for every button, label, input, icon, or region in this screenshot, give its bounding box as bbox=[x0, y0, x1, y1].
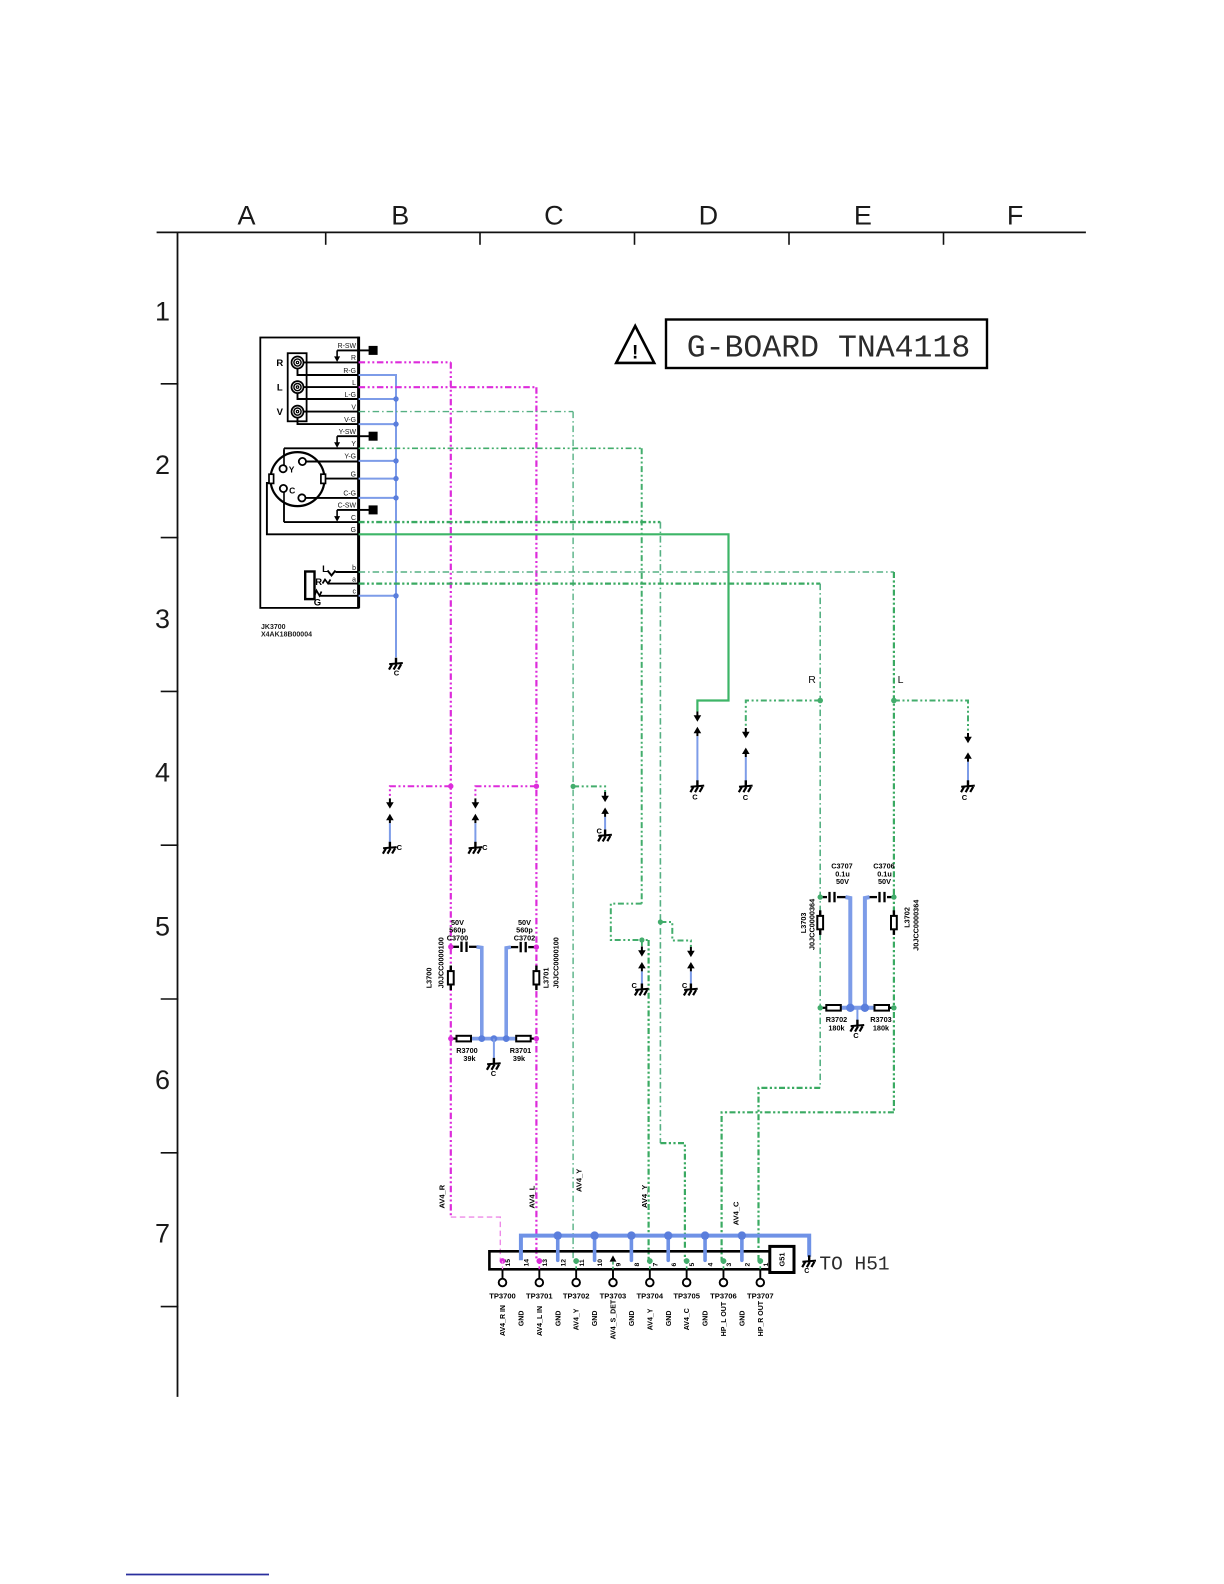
wire bbox=[696, 736, 698, 781]
svg-text:C: C bbox=[397, 843, 403, 852]
svg-text:TP3702: TP3702 bbox=[563, 1291, 590, 1300]
svg-text:50V: 50V bbox=[836, 877, 849, 886]
svg-text:L: L bbox=[277, 383, 283, 394]
svg-text:C: C bbox=[962, 793, 968, 802]
svg-text:X4AK18B00004: X4AK18B00004 bbox=[261, 632, 312, 639]
connector arrows bbox=[742, 728, 750, 738]
wire bbox=[666, 1236, 670, 1261]
junction pin7 bbox=[647, 1258, 653, 1264]
svg-text:c: c bbox=[353, 589, 357, 596]
svg-text:TP3706: TP3706 bbox=[710, 1291, 737, 1300]
svg-text:L3702: L3702 bbox=[903, 907, 912, 928]
junction bbox=[846, 1004, 854, 1012]
headphone jack body bbox=[305, 572, 314, 600]
resistor R3702 bbox=[820, 1007, 826, 1009]
S-video DIN connector body bbox=[284, 447, 359, 449]
DIN pin Y (top left) bbox=[283, 450, 285, 465]
junction bbox=[554, 1231, 562, 1239]
svg-text:5: 5 bbox=[689, 1263, 696, 1267]
svg-text:12: 12 bbox=[560, 1259, 567, 1267]
svg-text:HP_R OUT: HP_R OUT bbox=[758, 1300, 765, 1336]
test point TP3700 bbox=[502, 1269, 504, 1278]
svg-text:7: 7 bbox=[155, 1219, 170, 1249]
svg-text:R: R bbox=[351, 355, 356, 362]
wire pin15 stub bbox=[502, 1261, 504, 1269]
wire C-G bbox=[359, 497, 396, 499]
svg-text:Y: Y bbox=[289, 465, 295, 475]
test point TP3703 bbox=[612, 1269, 614, 1278]
svg-text:AV4_Y: AV4_Y bbox=[574, 1308, 581, 1330]
junction pin13 bbox=[536, 1258, 542, 1264]
link underline bbox=[126, 1574, 269, 1576]
connector JK3700 outer box bbox=[260, 338, 358, 608]
wire bbox=[506, 947, 511, 1039]
resistor R3701 bbox=[531, 1037, 537, 1039]
svg-text:50V: 50V bbox=[878, 877, 891, 886]
R-SW stub and terminal bbox=[337, 349, 359, 351]
ground bbox=[690, 780, 704, 792]
svg-text:AV4_Y: AV4_Y bbox=[640, 1185, 649, 1208]
wire G (DIN shield) bbox=[359, 478, 396, 480]
wire bbox=[474, 823, 476, 842]
svg-text:J0JCC0000100: J0JCC0000100 bbox=[552, 937, 561, 988]
svg-text:1: 1 bbox=[155, 297, 170, 327]
svg-text:AV4_R IN: AV4_R IN bbox=[500, 1305, 507, 1336]
RCA jack V bbox=[292, 406, 304, 418]
junction bbox=[701, 1231, 709, 1239]
svg-text:C3700: C3700 bbox=[447, 933, 469, 942]
ground bbox=[383, 842, 397, 854]
svg-text:R-G: R-G bbox=[343, 368, 356, 375]
svg-text:GND: GND bbox=[703, 1311, 710, 1327]
svg-text:Y: Y bbox=[351, 441, 356, 448]
junction bbox=[448, 944, 453, 949]
junction bbox=[818, 1005, 823, 1010]
junction bbox=[393, 593, 398, 598]
svg-text:GND: GND bbox=[629, 1311, 636, 1327]
svg-text:V: V bbox=[351, 404, 356, 411]
svg-text:R-SW: R-SW bbox=[338, 343, 357, 350]
svg-text:AV4_L: AV4_L bbox=[527, 1185, 536, 1208]
pin name labels bbox=[338, 343, 357, 595]
svg-text:Y-SW: Y-SW bbox=[339, 429, 357, 436]
junction bbox=[448, 784, 453, 789]
ground bbox=[598, 830, 612, 842]
svg-text:V: V bbox=[277, 407, 284, 418]
svg-text:AV4_Y: AV4_Y bbox=[647, 1308, 654, 1330]
svg-text:13: 13 bbox=[542, 1259, 549, 1267]
junction bbox=[891, 894, 896, 899]
junction bbox=[393, 396, 398, 401]
wire bbox=[556, 1236, 560, 1261]
svg-text:J0JCC0000364: J0JCC0000364 bbox=[808, 898, 817, 950]
test point TP3701 bbox=[538, 1269, 540, 1278]
connector G51 body bbox=[489, 1251, 769, 1269]
wire bbox=[690, 971, 692, 984]
svg-text:3: 3 bbox=[726, 1263, 733, 1267]
RCA signal wires bbox=[304, 361, 359, 363]
wire pin11 stub bbox=[575, 1261, 577, 1269]
wire bbox=[630, 1236, 634, 1261]
connector arrows bbox=[687, 947, 695, 957]
svg-text:HP_L OUT: HP_L OUT bbox=[721, 1301, 728, 1336]
junction bbox=[534, 784, 539, 789]
wire bbox=[471, 1037, 516, 1041]
wire bbox=[967, 762, 969, 781]
junction pin15 bbox=[500, 1258, 506, 1264]
junction bbox=[639, 937, 644, 942]
junction bbox=[658, 919, 663, 924]
svg-text:A: A bbox=[237, 201, 255, 231]
svg-text:L3700: L3700 bbox=[425, 968, 434, 989]
svg-text:C-G: C-G bbox=[343, 491, 356, 498]
svg-text:9: 9 bbox=[616, 1263, 623, 1267]
junction bbox=[393, 421, 398, 426]
wire branch to gnd bbox=[641, 940, 643, 946]
svg-text:AV4_L IN: AV4_L IN bbox=[537, 1306, 544, 1336]
junction bbox=[534, 944, 539, 949]
svg-text:C-SW: C-SW bbox=[338, 503, 357, 510]
DIN shield key left / G wire bbox=[267, 483, 359, 534]
svg-text:GND: GND bbox=[666, 1311, 673, 1327]
wire c (headphone gnd) bbox=[359, 595, 396, 597]
svg-text:C: C bbox=[491, 1069, 497, 1078]
svg-text:F: F bbox=[1007, 201, 1024, 231]
wire bbox=[856, 1008, 858, 1021]
svg-text:L-G: L-G bbox=[345, 392, 357, 399]
svg-text:C: C bbox=[394, 669, 400, 678]
wire AV4_R to pin15 bbox=[451, 1217, 501, 1261]
svg-text:TP3700: TP3700 bbox=[489, 1291, 516, 1300]
svg-text:G-BOARD TNA4118: G-BOARD TNA4118 bbox=[687, 332, 971, 367]
ground bbox=[802, 1255, 816, 1267]
svg-text:!: ! bbox=[632, 343, 638, 364]
junction bbox=[817, 698, 823, 704]
border frame bbox=[158, 232, 1086, 1396]
junction pin11 bbox=[573, 1258, 579, 1264]
wire bbox=[493, 1039, 495, 1059]
svg-text:GND: GND bbox=[519, 1311, 526, 1327]
svg-text:C: C bbox=[692, 793, 698, 802]
junction pin1 bbox=[757, 1258, 763, 1264]
DIN pin C (bottom left) bbox=[283, 492, 285, 522]
svg-text:L: L bbox=[898, 674, 904, 686]
capacitor C3702 bbox=[528, 946, 536, 948]
wire bbox=[745, 757, 747, 781]
junction bbox=[393, 476, 398, 481]
svg-text:G51: G51 bbox=[778, 1253, 787, 1267]
junction bbox=[448, 1036, 453, 1041]
wire bbox=[593, 1236, 597, 1261]
wire L-G bbox=[359, 398, 396, 400]
test point TP3705 bbox=[686, 1269, 688, 1278]
wire branch to gnd bbox=[660, 922, 691, 947]
RCA ground wires bbox=[298, 368, 359, 375]
ground bbox=[487, 1058, 501, 1070]
ground bbox=[635, 984, 649, 996]
svg-text:C: C bbox=[289, 486, 295, 496]
svg-text:2: 2 bbox=[155, 450, 170, 480]
wire bbox=[841, 1006, 875, 1010]
svg-text:AV4_C: AV4_C bbox=[684, 1308, 691, 1330]
svg-text:2: 2 bbox=[744, 1263, 751, 1267]
svg-text:L: L bbox=[352, 380, 356, 387]
svg-text:TP3701: TP3701 bbox=[526, 1291, 553, 1300]
warning triangle bbox=[616, 326, 654, 363]
wire branch to gnd bbox=[894, 701, 968, 734]
svg-text:GND: GND bbox=[739, 1311, 746, 1327]
wire AV4_R (R audio) bbox=[359, 361, 451, 363]
wire AV4_Y (V video) bbox=[359, 411, 573, 413]
svg-text:7: 7 bbox=[652, 1263, 659, 1267]
wire bbox=[389, 823, 391, 842]
RCA jack block bbox=[288, 353, 307, 421]
svg-text:180k: 180k bbox=[873, 1023, 890, 1032]
svg-text:a: a bbox=[352, 576, 356, 583]
svg-text:TP3705: TP3705 bbox=[673, 1291, 700, 1300]
wire branch to gnd bbox=[475, 786, 536, 798]
svg-text:D: D bbox=[699, 201, 719, 231]
capacitor C3707 bbox=[820, 896, 827, 898]
svg-text:5: 5 bbox=[155, 911, 170, 941]
svg-text:GND: GND bbox=[592, 1311, 599, 1327]
junction bbox=[664, 1231, 672, 1239]
wire bbox=[865, 897, 870, 1008]
svg-text:C: C bbox=[804, 1268, 809, 1275]
wire HP_L OUT bbox=[359, 571, 894, 573]
svg-text:R: R bbox=[808, 674, 816, 686]
test point TP3702 bbox=[575, 1269, 577, 1278]
svg-text:AV4_Y: AV4_Y bbox=[575, 1169, 584, 1192]
junction bbox=[861, 1004, 869, 1012]
svg-text:L: L bbox=[322, 564, 328, 575]
wire pin1 stub bbox=[759, 1261, 761, 1269]
junction bbox=[571, 784, 576, 789]
wire branch to gnd bbox=[573, 786, 605, 792]
svg-text:C: C bbox=[631, 981, 637, 990]
svg-text:GND: GND bbox=[555, 1311, 562, 1327]
svg-text:AV4_R: AV4_R bbox=[438, 1184, 447, 1208]
wire bbox=[740, 1236, 744, 1261]
junction bbox=[891, 698, 897, 704]
connector arrows bbox=[638, 946, 646, 956]
inductor L3701 bbox=[535, 966, 537, 972]
wire branch to gnd bbox=[746, 701, 820, 729]
junction bbox=[891, 1005, 896, 1010]
wire bbox=[477, 947, 482, 1039]
svg-text:C: C bbox=[351, 515, 356, 522]
svg-text:E: E bbox=[854, 201, 872, 231]
ground bbox=[389, 658, 403, 670]
ground bbox=[684, 984, 698, 996]
wire AV4_L (L audio) bbox=[359, 386, 537, 388]
junction bbox=[503, 1035, 510, 1042]
svg-text:180k: 180k bbox=[828, 1023, 845, 1032]
svg-text:3: 3 bbox=[155, 604, 170, 634]
svg-text:C: C bbox=[682, 981, 688, 990]
RCA jack R bbox=[292, 357, 304, 369]
test point TP3707 bbox=[759, 1269, 761, 1278]
junction bbox=[738, 1231, 746, 1239]
junction bbox=[393, 495, 398, 500]
capacitor C3700 bbox=[451, 946, 459, 948]
ground bbox=[468, 842, 482, 854]
svg-text:C: C bbox=[482, 843, 488, 852]
DIN pin C-G (bottom right) bbox=[302, 497, 359, 499]
test point TP3706 bbox=[722, 1269, 724, 1278]
headphone G contact (c) bbox=[315, 591, 322, 596]
junction bbox=[491, 1035, 498, 1042]
resistor R3700 bbox=[451, 1037, 457, 1039]
inductor L3700 bbox=[450, 966, 452, 972]
wire G (svideo shield) bbox=[359, 534, 729, 711]
junction bbox=[590, 1231, 598, 1239]
svg-text:AV4_S_DET: AV4_S_DET bbox=[611, 1299, 618, 1339]
wire branch to gnd bbox=[390, 786, 451, 798]
svg-text:C: C bbox=[544, 201, 564, 231]
svg-text:TP3704: TP3704 bbox=[637, 1291, 664, 1300]
wire pin3 stub bbox=[722, 1261, 724, 1269]
svg-text:TO H51: TO H51 bbox=[819, 1254, 889, 1276]
svg-text:TP3707: TP3707 bbox=[747, 1291, 774, 1300]
svg-text:39k: 39k bbox=[463, 1054, 476, 1063]
svg-text:C: C bbox=[853, 1031, 859, 1040]
wire bbox=[703, 1236, 707, 1261]
connector G51 box bbox=[770, 1246, 794, 1272]
svg-text:14: 14 bbox=[524, 1259, 531, 1267]
junction bbox=[393, 458, 398, 463]
pin9 arrow (AV4_S_DET) bbox=[610, 1255, 617, 1261]
title box G-BOARD TNA4118 bbox=[666, 320, 987, 369]
svg-text:AV4_C: AV4_C bbox=[731, 1201, 740, 1225]
svg-text:V-G: V-G bbox=[344, 417, 356, 424]
svg-text:TP3703: TP3703 bbox=[600, 1291, 627, 1300]
svg-text:B: B bbox=[391, 201, 409, 231]
svg-text:R: R bbox=[315, 577, 322, 588]
svg-text:R: R bbox=[276, 358, 283, 369]
svg-text:G: G bbox=[351, 527, 356, 534]
svg-text:Y-G: Y-G bbox=[344, 454, 356, 461]
connector arrows bbox=[386, 798, 394, 808]
junction bbox=[478, 1035, 485, 1042]
junction pin3 bbox=[721, 1258, 727, 1264]
wire bbox=[846, 897, 851, 1008]
DIN shield key right / G wire bbox=[324, 478, 359, 480]
wire blue ground bus bbox=[359, 375, 396, 657]
svg-text:JK3700: JK3700 bbox=[261, 624, 286, 631]
wire Y-G bbox=[359, 460, 396, 462]
connector arrows bbox=[694, 712, 702, 722]
svg-text:G: G bbox=[314, 598, 321, 609]
wire bbox=[641, 971, 643, 984]
svg-text:6: 6 bbox=[671, 1263, 678, 1267]
svg-text:L3701: L3701 bbox=[542, 968, 551, 989]
svg-text:C: C bbox=[743, 793, 749, 802]
capacitor C3706 bbox=[887, 896, 894, 898]
svg-text:4: 4 bbox=[155, 758, 170, 788]
svg-text:39k: 39k bbox=[513, 1054, 526, 1063]
C-SW stub and terminal bbox=[337, 509, 359, 511]
svg-text:J0JCC0000100: J0JCC0000100 bbox=[437, 937, 446, 988]
svg-text:15: 15 bbox=[505, 1259, 512, 1267]
inductor L3703 bbox=[819, 910, 821, 916]
ground bbox=[739, 780, 753, 792]
wire pin5 stub bbox=[686, 1261, 688, 1269]
svg-text:J0JCC0000364: J0JCC0000364 bbox=[912, 899, 921, 951]
wire HP_R OUT bbox=[359, 582, 821, 584]
ground bbox=[961, 780, 975, 792]
blue GND bus bbox=[521, 1236, 809, 1261]
DIN pin Y-G (top right) bbox=[302, 461, 358, 463]
connector arrows bbox=[601, 792, 609, 802]
svg-text:1: 1 bbox=[763, 1263, 770, 1267]
ground bbox=[850, 1020, 864, 1032]
connector arrows bbox=[472, 798, 480, 808]
test point TP3704 bbox=[649, 1269, 651, 1278]
svg-text:C3702: C3702 bbox=[514, 933, 536, 942]
svg-text:8: 8 bbox=[634, 1263, 641, 1267]
junction pin5 bbox=[684, 1258, 690, 1264]
svg-text:11: 11 bbox=[579, 1259, 586, 1266]
junction bbox=[627, 1231, 635, 1239]
wire bbox=[604, 817, 606, 830]
wire AV4_C (C svideo) bbox=[359, 521, 661, 523]
svg-text:10: 10 bbox=[597, 1259, 604, 1267]
wire V-G bbox=[359, 423, 396, 425]
svg-text:6: 6 bbox=[155, 1065, 170, 1095]
junction bbox=[818, 894, 823, 899]
wire pin13 stub bbox=[538, 1261, 540, 1269]
resistor R3703 bbox=[889, 1007, 894, 1009]
junction bbox=[534, 1036, 539, 1041]
connector arrows bbox=[964, 733, 972, 743]
wire pin7 stub bbox=[649, 1261, 651, 1269]
RCA jack L bbox=[292, 381, 304, 393]
svg-text:4: 4 bbox=[708, 1263, 715, 1267]
svg-text:C: C bbox=[596, 826, 602, 835]
svg-text:G: G bbox=[351, 471, 356, 478]
wire AV4_Y (Y svideo) bbox=[359, 447, 642, 449]
Y-SW stub and terminal bbox=[337, 435, 359, 437]
svg-text:b: b bbox=[352, 565, 356, 572]
inductor L3702 bbox=[893, 910, 895, 916]
